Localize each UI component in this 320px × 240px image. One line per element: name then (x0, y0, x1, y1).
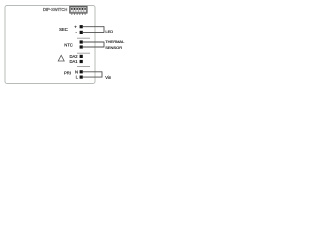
background (0, 0, 130, 89)
svg-text:LED: LED (105, 29, 113, 34)
svg-text:N: N (75, 69, 78, 74)
driver enclosure outline (5, 6, 95, 84)
SEC - pad (80, 31, 83, 34)
svg-text:SENSOR: SENSOR (105, 45, 122, 50)
Vin bracket (101, 71, 103, 77)
separator DA/PRI (77, 66, 90, 68)
wire SEC+ to LED (83, 26, 104, 28)
wire SEC- to LED (83, 31, 104, 33)
DA1 pad (80, 60, 83, 63)
svg-text:+: + (74, 25, 77, 30)
wire N to Vin (83, 71, 102, 73)
PRI L pad (80, 76, 83, 79)
LED bracket (103, 26, 105, 33)
svg-text:Vin: Vin (105, 75, 112, 80)
svg-text:DA1: DA1 (69, 59, 78, 64)
svg-text:NTC: NTC (64, 43, 73, 48)
wire NTC1 to thermal sensor (83, 41, 104, 43)
PRI N pad (80, 70, 83, 73)
dip switch actuators (71, 8, 86, 10)
dip switch positions 1-6 (71, 8, 86, 12)
NTC pad 1 (80, 40, 83, 43)
thermal sensor bracket (103, 42, 105, 48)
DA2 pad (80, 55, 83, 58)
wire L to Vin (83, 76, 102, 78)
separator SEC/NTC (77, 37, 90, 39)
wire NTC2 to thermal sensor (83, 46, 104, 48)
SEC + pad (80, 25, 83, 28)
dip switch S1 body (70, 6, 87, 13)
svg-text:PRI: PRI (64, 71, 71, 76)
svg-text:SEC: SEC (59, 27, 68, 32)
svg-text:THERMAL: THERMAL (105, 39, 125, 44)
dip switch pins (72, 13, 85, 15)
separator NTC/DA (77, 52, 90, 54)
NTC pad 2 (80, 45, 83, 48)
svg-text:DIP-SWITCH: DIP-SWITCH (43, 7, 67, 12)
warning triangle (58, 55, 64, 61)
